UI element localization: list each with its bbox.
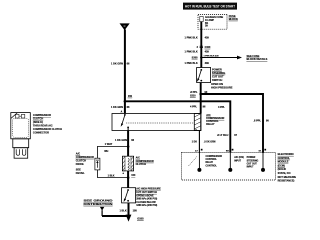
clutch label: [136, 157, 154, 166]
compressor clutch pictorial caption: [33, 114, 62, 135]
svg-text:DIODE: DIODE: [76, 163, 84, 166]
compressor clutch pictorial: [11, 113, 31, 159]
ECM dashed box: [182, 153, 276, 181]
label 4 PPL 96: [190, 105, 225, 109]
ECM text power steering cut out input: [247, 157, 259, 168]
wire bus to ECM A/C input: [125, 101, 230, 152]
svg-text:1 PNK BLK: 1 PNK BLK: [184, 37, 197, 40]
power steering cut-out switch text: [211, 67, 233, 89]
svg-text:STEERING: STEERING: [212, 71, 225, 75]
svg-text:1380 kPa (200 PSI): 1380 kPa (200 PSI): [136, 204, 157, 207]
label 1 DK GRN 66: [115, 139, 135, 142]
svg-text:1 WHT: 1 WHT: [105, 143, 113, 146]
pin A7: [189, 149, 203, 172]
svg-text:INPUT: INPUT: [234, 160, 241, 162]
svg-text:439: 439: [205, 51, 210, 54]
relay switch contacts: [121, 114, 129, 131]
pressure switch text: [136, 188, 161, 208]
svg-text:1 DK GRN: 1 DK GRN: [111, 106, 123, 109]
wire bus to ECM P/S input: [201, 94, 263, 153]
svg-text:BLOCK DETAILS: BLOCK DETAILS: [247, 57, 268, 61]
svg-text:150: 150: [131, 174, 136, 177]
A/C compressor clutch coil: [122, 156, 133, 171]
wire: banner C to relay switch: [124, 30, 126, 114]
diode label: [76, 152, 94, 175]
svg-text:ELECTRONIC: ELECTRONIC: [278, 153, 294, 156]
svg-text:4 PPL: 4 PPL: [190, 105, 197, 108]
svg-text:DISTRIBUTION: DISTRIBUTION: [84, 202, 113, 206]
svg-text:1 PNK BLK: 1 PNK BLK: [184, 51, 197, 54]
relay coil: [194, 114, 200, 131]
splice S210: [190, 93, 202, 98]
title bar HOT IN RUN: [183, 3, 237, 10]
wire: clutch to pressure switch: [127, 171, 129, 188]
svg-text:BLOCK: BLOCK: [229, 17, 238, 21]
svg-text:1 DK GRN: 1 DK GRN: [111, 62, 123, 65]
wire: relay coil to ECM P1: [198, 131, 200, 153]
svg-text:150: 150: [133, 210, 138, 213]
svg-text:WH: WH: [104, 150, 108, 153]
svg-text:SEE FUSE: SEE FUSE: [247, 54, 260, 58]
svg-text:1 BLK: 1 BLK: [119, 210, 126, 213]
svg-text:1 PNK BLK: 1 PNK BLK: [184, 62, 197, 65]
svg-text:CONTROL: CONTROL: [206, 165, 218, 167]
ECM label: [278, 153, 297, 183]
svg-text:C: C: [124, 24, 126, 28]
svg-text:MODULE: MODULE: [278, 161, 289, 164]
wire: switch to ground: [128, 203, 130, 217]
label 1 DK GRN 66: [111, 106, 130, 109]
diode D1: [95, 158, 100, 170]
ground distribution tap: [100, 207, 104, 216]
node C banner connector: [120, 23, 130, 30]
svg-text:INPUT: INPUT: [247, 167, 254, 169]
svg-text:COMPRESSOR: COMPRESSOR: [206, 156, 223, 158]
svg-text:4 PPL: 4 PPL: [218, 106, 225, 109]
svg-text:CUT OUT: CUT OUT: [247, 163, 258, 165]
svg-text:.8 PPL: .8 PPL: [253, 120, 261, 123]
svg-text:HIGH PRESSURE: HIGH PRESSURE: [211, 86, 233, 90]
svg-text:439: 439: [205, 37, 210, 40]
label .5 DK GRN 459: [192, 142, 216, 144]
junction dot line L: [124, 100, 127, 103]
svg-text:CONTROL: CONTROL: [206, 159, 218, 161]
relay label: [206, 114, 224, 126]
see fuse block details note: [247, 54, 268, 61]
svg-text:150: 150: [128, 95, 133, 98]
label 1 PNK BLK 439: [184, 62, 209, 65]
pin B8: [226, 149, 233, 172]
label 1 BLK 150: [119, 210, 137, 213]
label .8 PPL 90: [190, 91, 208, 94]
svg-text:RELAY: RELAY: [206, 123, 215, 126]
svg-text:STATE, DO: STATE, DO: [278, 172, 291, 175]
pin D1: [259, 149, 266, 172]
svg-text:1 DK: 1 DK: [192, 142, 198, 144]
node junction bottom of loop: [127, 176, 130, 179]
wire: relay to compressor clutch: [127, 131, 129, 157]
label .8 LT BLU 67: [217, 134, 238, 137]
svg-text:S210: S210: [190, 94, 196, 97]
ground distribution note: [84, 199, 113, 206]
label 1 PNK BLK 439: [184, 51, 209, 54]
A/C high pressure cut-out switch: [122, 188, 141, 203]
node junction top of clutch loop: [127, 145, 130, 148]
svg-text:1 DK GRN: 1 DK GRN: [115, 139, 127, 142]
svg-text:.5 DK GRN: .5 DK GRN: [204, 142, 216, 144]
svg-text:NOT MEASURE: NOT MEASURE: [278, 176, 297, 179]
label 1 DK GRN 66: [111, 62, 130, 65]
ECM text A/C on input: [234, 156, 244, 162]
svg-text:(ECM): (ECM): [278, 164, 285, 167]
svg-text:POWER: POWER: [212, 67, 222, 71]
svg-text:S205: S205: [192, 57, 198, 60]
svg-text:.8 LT BLU: .8 LT BLU: [217, 134, 229, 137]
svg-text:SWITCH: SWITCH: [212, 78, 222, 82]
ECM text compressor control relay control: [206, 156, 223, 167]
ground G105: [126, 215, 145, 222]
wire: fuse to P/S switch: [200, 22, 202, 68]
svg-text:CLUTCH: CLUTCH: [136, 163, 146, 166]
svg-text:A/C (ON): A/C (ON): [234, 156, 244, 159]
node ground junction: [127, 215, 130, 218]
svg-text:RELAY: RELAY: [206, 161, 214, 164]
svg-text:STEERING: STEERING: [247, 160, 259, 162]
wire ground bus: [102, 215, 129, 217]
svg-text:(SOLID: (SOLID: [278, 168, 287, 171]
wire: switch to relay coil: [200, 83, 202, 114]
svg-text:RESISTANCE): RESISTANCE): [278, 180, 295, 183]
svg-text:1 PNK BLK 439: 1 PNK BLK 439: [204, 54, 220, 57]
A/C compressor control relay box: [112, 114, 201, 131]
svg-text:CUT OUT: CUT OUT: [212, 74, 224, 78]
connector C100: [197, 46, 211, 49]
splice S205: [192, 56, 203, 59]
label .8 PPL 90 on right wire: [253, 120, 269, 123]
svg-text:439: 439: [205, 62, 210, 65]
wire clutch diode loop: [97, 147, 128, 159]
svg-text:DETAIL: DETAIL: [76, 172, 85, 175]
label 1 PNK BLK 439: [184, 37, 209, 40]
wire arrow to fuse block details: [201, 54, 242, 59]
fuse block label: [229, 14, 238, 21]
svg-text:OPEN ON: OPEN ON: [211, 82, 223, 86]
power steering cut-out switch: [197, 68, 211, 83]
svg-text:CONTROL: CONTROL: [278, 157, 291, 160]
svg-text:C100: C100: [205, 46, 211, 49]
fuse GAUGES: [200, 16, 224, 28]
svg-text:1 BLK: 1 BLK: [108, 174, 115, 177]
label 1 BLK 150: [108, 174, 136, 177]
svg-text:POWER: POWER: [247, 157, 256, 159]
svg-text:G105: G105: [137, 216, 144, 220]
svg-text:CONNECTOR: CONNECTOR: [33, 132, 49, 135]
fuse block dashed box: [198, 14, 227, 29]
svg-text:HOT IN RUN, BULB TEST OR START: HOT IN RUN, BULB TEST OR START: [185, 5, 236, 9]
